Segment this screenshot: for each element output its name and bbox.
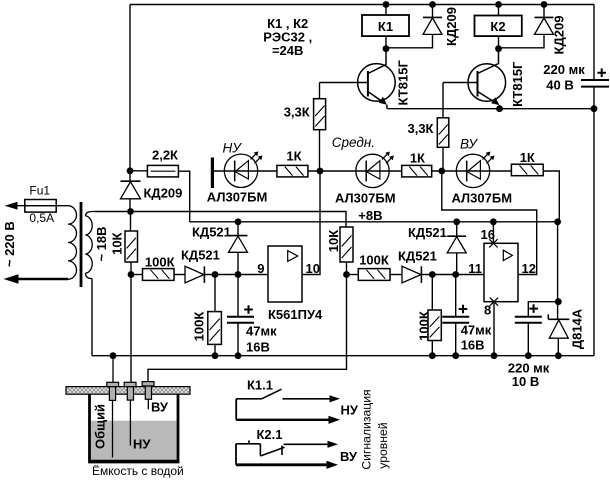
svg-text:Fu1: Fu1 bbox=[29, 183, 50, 197]
node junction dot 10K/100K ch2 bbox=[343, 271, 350, 278]
node junction dot zener bottom bbox=[555, 352, 562, 359]
diode KD521 ch2 horizontal bbox=[398, 249, 484, 283]
node junction dot 47mk ch2 bbox=[452, 271, 459, 278]
resistor R 100K ch2 vertical bbox=[417, 275, 442, 356]
svg-text:220 мк: 220 мк bbox=[543, 62, 585, 77]
wire emitter rail bbox=[388, 108, 595, 110]
diode KD209 rectifier bbox=[121, 171, 183, 212]
relay contact K2.1 bbox=[236, 427, 338, 469]
svg-text:КД209: КД209 bbox=[444, 7, 459, 46]
relay K2 bbox=[475, 5, 522, 49]
transformer T1 secondary winding bbox=[86, 212, 96, 279]
resistor R 10K channel 2 bbox=[326, 227, 353, 275]
svg-text:ВУ: ВУ bbox=[460, 137, 478, 152]
transformer T1 primary winding bbox=[68, 206, 77, 280]
svg-text:~ 220 В: ~ 220 В bbox=[2, 221, 17, 267]
svg-text:11: 11 bbox=[468, 261, 482, 276]
svg-text:100К: 100К bbox=[417, 311, 432, 341]
node junction dot KD521 ch2 top on +8V bbox=[453, 218, 460, 225]
node junction dot ground/common electrode bbox=[110, 352, 117, 359]
node junction dot 100K vert ch2 bbox=[429, 271, 436, 278]
capacitor C 47mk 16V ch2 bbox=[442, 275, 492, 356]
node junction dot 47mk ch1 bottom bbox=[235, 352, 242, 359]
capacitor C 47mk 16V ch1 bbox=[227, 275, 277, 356]
resistor R 3.3K (Q2 base) bbox=[407, 83, 477, 172]
pin 8 wire and cross bbox=[484, 298, 498, 356]
resistor R 3.3K (Q1 base) bbox=[284, 83, 368, 172]
resistor R 1K (NU) bbox=[277, 149, 308, 177]
node junction dot K1 top bbox=[383, 1, 390, 8]
svg-text:АЛ307БМ: АЛ307БМ bbox=[335, 191, 396, 206]
tank water fill bbox=[91, 421, 177, 461]
wire ground rail bbox=[92, 355, 594, 357]
IC U1a K561PU4 buffer 1 bbox=[268, 246, 302, 302]
electrode NU (bolt) bbox=[124, 382, 136, 400]
tank lid hatched bbox=[66, 387, 190, 395]
svg-text:16: 16 bbox=[481, 227, 495, 242]
svg-text:100К: 100К bbox=[192, 312, 207, 342]
svg-text:8: 8 bbox=[484, 303, 491, 318]
svg-text:40 В: 40 В bbox=[546, 78, 573, 93]
svg-text:КД209: КД209 bbox=[552, 16, 567, 55]
wire pin12 to LED node bbox=[442, 171, 537, 275]
diode KD521 ch1 vertical bbox=[192, 222, 248, 275]
node junction dot rectified node (2.2K left) bbox=[127, 167, 134, 174]
svg-text:10: 10 bbox=[306, 261, 320, 276]
svg-text:2,2К: 2,2К bbox=[152, 148, 178, 163]
wire right edge vertical (top rail to C 220mk 40V) bbox=[593, 5, 595, 81]
capacitor C 220mk 10V bbox=[508, 302, 558, 389]
diode KD209 (K2 snubber) bbox=[499, 5, 554, 48]
node junction dot pin8 ground bbox=[491, 352, 498, 359]
node junction dot transformer/diode bbox=[127, 208, 134, 215]
diode KD209 (K1 snubber) bbox=[386, 5, 442, 48]
node junction dot KD521 ch1 top on +8V bbox=[235, 218, 242, 225]
svg-text:КТ815Г: КТ815Г bbox=[396, 60, 411, 106]
svg-text:Д814А: Д814А bbox=[570, 308, 585, 349]
label relay note K1,K2 RES32 24V bbox=[263, 16, 312, 58]
svg-text:К2.1: К2.1 bbox=[257, 427, 283, 442]
node junction dot zener/cap bbox=[555, 298, 562, 305]
svg-text:10К: 10К bbox=[326, 230, 341, 252]
svg-text:ВУ: ВУ bbox=[340, 449, 358, 464]
svg-text:НУ: НУ bbox=[223, 141, 243, 156]
wire right edge vertical (C bottom to ground rail) bbox=[593, 87, 595, 356]
node junction dot 10K/100K ch1 bbox=[128, 271, 135, 278]
diode KD521 ch1 horizontal bbox=[181, 248, 268, 283]
node junction dot 100K ch1 bottom bbox=[212, 352, 219, 359]
electrode NU wire bbox=[129, 400, 131, 445]
svg-text:1К: 1К bbox=[520, 150, 535, 165]
svg-text:КД521: КД521 bbox=[408, 225, 447, 240]
svg-text:10 В: 10 В bbox=[512, 374, 539, 389]
tank walls bbox=[88, 394, 179, 462]
node junction dot 100K vert ch1 bbox=[212, 271, 219, 278]
electrode VU wire bbox=[147, 399, 149, 409]
node junction dot 100K ch2 bottom bbox=[429, 352, 436, 359]
wire AC secondary top to sensing dividers bbox=[95, 212, 346, 228]
transformer T1 core bbox=[80, 202, 83, 287]
svg-text:9: 9 bbox=[257, 261, 264, 276]
electrode VU (bolt) bbox=[142, 382, 154, 400]
svg-text:КТ815Г: КТ815Г bbox=[510, 61, 525, 107]
svg-text:100К: 100К bbox=[145, 255, 175, 270]
node junction dot K2 top bbox=[495, 1, 502, 8]
svg-text:100К: 100К bbox=[359, 253, 389, 268]
svg-text:Ёмкость с водой: Ёмкость с водой bbox=[92, 464, 184, 478]
svg-text:К2: К2 bbox=[490, 19, 505, 34]
svg-text:КД521: КД521 bbox=[181, 248, 220, 263]
svg-text:47мк: 47мк bbox=[461, 323, 492, 338]
node junction dot Q2 emitter on rail bbox=[496, 105, 503, 112]
svg-text:12: 12 bbox=[522, 261, 536, 276]
svg-text:уровней: уровней bbox=[376, 422, 390, 468]
svg-text:0,5А: 0,5А bbox=[29, 211, 54, 225]
svg-text:1К: 1К bbox=[286, 149, 301, 164]
svg-text:Средн.: Средн. bbox=[332, 135, 375, 150]
svg-text:+8В: +8В bbox=[358, 208, 382, 223]
thick bar terminal at NU LED bbox=[211, 158, 214, 189]
node junction dot emitter rail right bbox=[591, 105, 598, 112]
svg-text:10К: 10К bbox=[110, 232, 125, 254]
node junction dot 47mk ch2 bottom bbox=[452, 352, 459, 359]
resistor R 1K (Sredn) bbox=[402, 151, 432, 177]
electrode common wire bbox=[112, 356, 115, 458]
svg-text:16В: 16В bbox=[246, 340, 270, 355]
svg-text:~ 18В: ~ 18В bbox=[94, 226, 109, 261]
resistor R 1K (VU) bbox=[511, 150, 543, 176]
fuse Fu1 0.5A bbox=[5, 183, 68, 225]
svg-text:=24В: =24В bbox=[272, 43, 303, 58]
node junction dot 220mk bottom bbox=[525, 352, 532, 359]
svg-text:Сигнализация: Сигнализация bbox=[360, 389, 374, 469]
svg-text:Общий: Общий bbox=[93, 404, 108, 449]
svg-text:НУ: НУ bbox=[133, 437, 151, 452]
wire +8V rail bbox=[190, 221, 558, 223]
IC U1b K561PU4 buffer 2 bbox=[484, 243, 518, 301]
wire top supply rail bbox=[130, 4, 594, 6]
svg-text:16В: 16В bbox=[461, 338, 485, 353]
svg-text:ВУ: ВУ bbox=[151, 399, 169, 414]
wire LED row bbox=[214, 171, 559, 222]
wire secondary bottom to ground rail bbox=[91, 279, 93, 356]
node junction dot +8V / LED chain bbox=[554, 218, 561, 225]
resistor R 2.2K bbox=[130, 148, 190, 222]
transistor Q1 KT815G bbox=[358, 49, 396, 109]
resistor R 100K ch2 horizontal bbox=[347, 253, 403, 281]
node junction dot R1K2/3.3K2/pin12 bbox=[438, 168, 445, 175]
node junction dot VD2 top bbox=[541, 1, 548, 8]
resistor R 100K ch1 horizontal bbox=[131, 255, 185, 281]
node junction dot R1K/3.3K/pin10 bbox=[317, 168, 324, 175]
electrode common (bolt) bbox=[107, 382, 119, 400]
svg-text:АЛ307БМ: АЛ307БМ bbox=[452, 191, 513, 206]
svg-text:НУ: НУ bbox=[341, 403, 359, 418]
capacitor C1 220mk 40V bbox=[543, 62, 609, 93]
transistor Q2 KT815G bbox=[468, 49, 506, 109]
svg-text:3,3К: 3,3К bbox=[407, 121, 433, 136]
node junction dot under K1 bbox=[383, 45, 390, 52]
zener diode D814A bbox=[548, 222, 584, 356]
LED HL3 AL307BM (VU) bbox=[456, 152, 494, 188]
relay contact K1.1 bbox=[236, 377, 340, 424]
pin 16 wire and cross bbox=[481, 222, 498, 248]
svg-text:1К: 1К bbox=[410, 151, 425, 166]
diode KD521 ch2 vertical bbox=[408, 222, 466, 275]
node junction dot VD1 top bbox=[429, 1, 436, 8]
svg-text:КД209: КД209 bbox=[144, 186, 183, 201]
LED HL1 AL307BM (NU) bbox=[224, 151, 262, 187]
svg-text:КД521: КД521 bbox=[398, 249, 437, 264]
resistor R 100K ch1 vertical bbox=[192, 275, 222, 356]
wire left vertical from top rail to rectified node bbox=[129, 5, 131, 171]
relay K1 bbox=[362, 5, 409, 49]
svg-text:К1: К1 bbox=[378, 19, 393, 34]
node junction dot pin9 bbox=[235, 271, 242, 278]
svg-text:КД521: КД521 bbox=[192, 225, 231, 240]
wire VU electrode riser bbox=[148, 275, 347, 382]
wire pin10 up to LED node bbox=[302, 171, 320, 275]
svg-text:3,3К: 3,3К bbox=[284, 105, 310, 120]
svg-text:АЛ307БМ: АЛ307БМ bbox=[207, 190, 268, 205]
node junction dot pin16 on +8V bbox=[490, 218, 497, 225]
resistor R 10K channel 1 bbox=[110, 212, 138, 383]
node junction dot under K2 bbox=[495, 45, 502, 52]
svg-text:К561ПУ4: К561ПУ4 bbox=[268, 307, 323, 322]
svg-text:47мк: 47мк bbox=[246, 324, 277, 339]
svg-text:К1.1: К1.1 bbox=[247, 377, 273, 392]
LED HL2 AL307BM (Sredn) bbox=[356, 152, 394, 188]
wire primary bottom with arrow bbox=[4, 274, 69, 283]
